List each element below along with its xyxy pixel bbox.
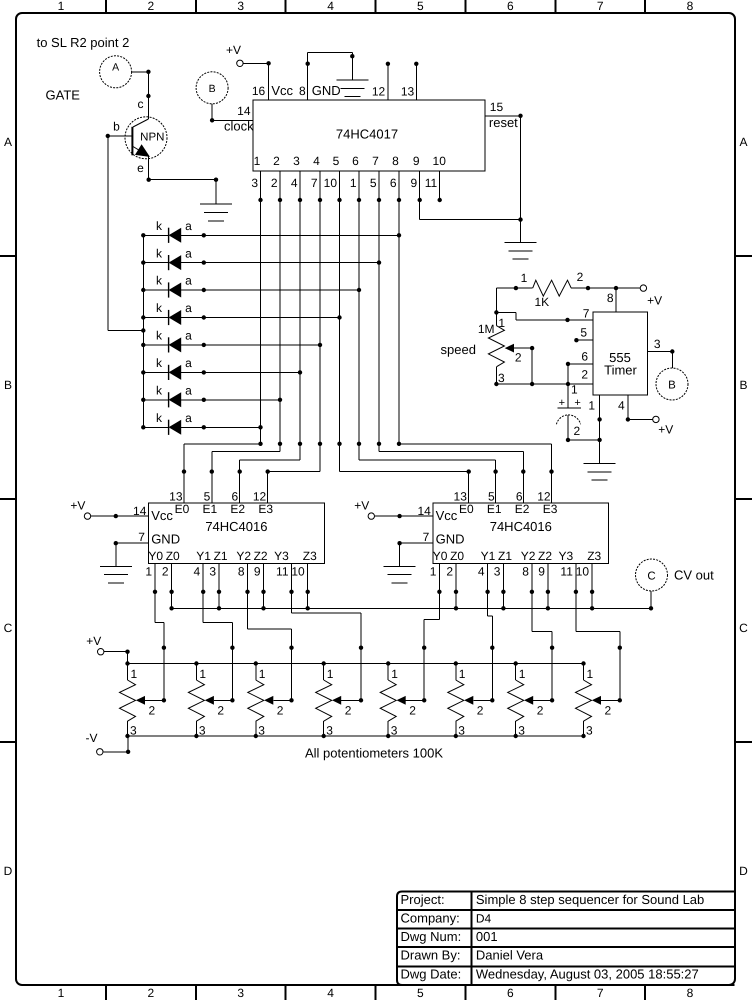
svg-text:1: 1 — [519, 667, 526, 681]
svg-text:a: a — [185, 356, 192, 370]
svg-text:Z2: Z2 — [538, 549, 552, 563]
svg-text:2: 2 — [446, 565, 453, 579]
svg-text:11: 11 — [425, 176, 438, 190]
svg-text:1: 1 — [391, 667, 398, 681]
svg-text:1: 1 — [327, 667, 334, 681]
svg-text:A: A — [739, 135, 747, 149]
svg-text:12: 12 — [372, 85, 386, 99]
svg-text:2: 2 — [605, 704, 612, 718]
svg-text:a: a — [185, 384, 192, 398]
svg-text:1: 1 — [587, 667, 594, 681]
svg-text:Y0: Y0 — [148, 549, 163, 563]
svg-text:1: 1 — [145, 565, 152, 579]
svg-text:2: 2 — [409, 704, 416, 718]
svg-text:6: 6 — [352, 154, 359, 168]
svg-text:+V: +V — [647, 294, 662, 308]
svg-text:11: 11 — [276, 565, 289, 579]
svg-text:74HC4016: 74HC4016 — [205, 519, 267, 534]
svg-text:4: 4 — [194, 565, 201, 579]
svg-text:B: B — [4, 378, 12, 392]
svg-text:+V: +V — [658, 423, 673, 437]
svg-text:Y3: Y3 — [274, 549, 289, 563]
svg-text:Project:: Project: — [401, 892, 445, 907]
svg-text:14: 14 — [133, 504, 147, 518]
svg-text:1: 1 — [571, 382, 578, 396]
svg-text:2: 2 — [149, 704, 156, 718]
svg-text:k: k — [156, 411, 163, 425]
svg-text:7: 7 — [583, 307, 590, 321]
svg-text:Z2: Z2 — [254, 549, 268, 563]
svg-text:3: 3 — [199, 724, 206, 738]
svg-text:+V: +V — [226, 43, 241, 57]
svg-text:7: 7 — [372, 154, 379, 168]
svg-text:2: 2 — [574, 424, 581, 438]
svg-text:001: 001 — [476, 929, 498, 944]
svg-text:4: 4 — [291, 176, 298, 190]
svg-text:2: 2 — [477, 704, 484, 718]
svg-text:a: a — [185, 219, 192, 233]
svg-text:D: D — [739, 864, 748, 878]
svg-text:Z0: Z0 — [166, 549, 180, 563]
svg-text:1M: 1M — [478, 322, 495, 336]
svg-text:4: 4 — [327, 0, 334, 13]
svg-text:E2: E2 — [515, 502, 530, 516]
svg-text:k: k — [156, 301, 163, 315]
svg-text:GND: GND — [312, 83, 341, 98]
svg-text:1: 1 — [131, 667, 138, 681]
svg-text:7: 7 — [597, 0, 604, 13]
svg-text:B: B — [739, 378, 747, 392]
svg-text:2: 2 — [217, 704, 224, 718]
svg-text:1: 1 — [498, 316, 505, 330]
svg-text:7: 7 — [138, 530, 145, 544]
svg-text:3: 3 — [251, 176, 258, 190]
svg-text:5: 5 — [333, 154, 340, 168]
svg-text:5: 5 — [417, 0, 424, 13]
svg-text:1: 1 — [254, 154, 261, 168]
svg-text:+V: +V — [70, 498, 85, 512]
svg-text:Vcc: Vcc — [271, 83, 293, 98]
svg-text:GND: GND — [151, 532, 180, 547]
svg-text:5: 5 — [370, 176, 377, 190]
svg-text:6: 6 — [507, 986, 514, 1000]
svg-text:to SL R2 point 2: to SL R2 point 2 — [37, 35, 130, 50]
svg-text:Daniel Vera: Daniel Vera — [476, 948, 544, 963]
svg-text:1: 1 — [588, 399, 595, 413]
svg-text:+: + — [559, 397, 565, 409]
svg-text:10: 10 — [433, 154, 447, 168]
svg-text:2: 2 — [537, 704, 544, 718]
svg-text:1: 1 — [199, 667, 206, 681]
svg-text:3: 3 — [293, 154, 300, 168]
svg-text:9: 9 — [254, 565, 261, 579]
svg-text:a: a — [185, 329, 192, 343]
svg-text:2: 2 — [515, 351, 522, 365]
svg-text:E0: E0 — [459, 502, 474, 516]
svg-text:3: 3 — [654, 337, 661, 351]
svg-text:GND: GND — [436, 532, 465, 547]
svg-text:D: D — [4, 864, 13, 878]
svg-text:1: 1 — [430, 565, 437, 579]
svg-text:c: c — [138, 97, 144, 111]
svg-text:-V: -V — [86, 731, 98, 745]
svg-text:Company:: Company: — [401, 910, 460, 925]
svg-text:10: 10 — [291, 565, 305, 579]
svg-text:4: 4 — [313, 154, 320, 168]
svg-text:D4: D4 — [476, 911, 492, 925]
svg-text:E1: E1 — [202, 502, 217, 516]
svg-text:3: 3 — [326, 724, 333, 738]
svg-text:6: 6 — [390, 176, 397, 190]
svg-text:8: 8 — [299, 84, 306, 98]
svg-text:k: k — [156, 356, 163, 370]
svg-text:Drawn By:: Drawn By: — [401, 948, 461, 963]
svg-text:2: 2 — [577, 270, 584, 284]
svg-text:+: + — [574, 397, 580, 409]
svg-text:clock: clock — [224, 119, 254, 134]
svg-text:11: 11 — [560, 565, 573, 579]
svg-text:7: 7 — [311, 176, 318, 190]
svg-text:9: 9 — [538, 565, 545, 579]
svg-text:CV out: CV out — [674, 568, 714, 583]
svg-text:k: k — [156, 274, 163, 288]
svg-text:6: 6 — [507, 0, 514, 13]
svg-text:a: a — [185, 301, 192, 315]
svg-text:+V: +V — [354, 498, 369, 512]
svg-text:3: 3 — [518, 724, 525, 738]
svg-text:Y2: Y2 — [236, 549, 251, 563]
svg-text:Y2: Y2 — [521, 549, 536, 563]
svg-text:10: 10 — [324, 176, 338, 190]
svg-text:13: 13 — [401, 85, 415, 99]
svg-text:1: 1 — [58, 0, 65, 13]
svg-text:8: 8 — [238, 565, 245, 579]
svg-text:Vcc: Vcc — [436, 508, 458, 523]
svg-text:Simple 8 step sequencer for So: Simple 8 step sequencer for Sound Lab — [476, 892, 704, 907]
svg-text:14: 14 — [417, 504, 431, 518]
svg-text:7: 7 — [423, 530, 430, 544]
svg-text:1: 1 — [259, 667, 266, 681]
svg-text:1K: 1K — [535, 295, 550, 309]
svg-text:speed: speed — [441, 342, 476, 357]
svg-text:2: 2 — [273, 154, 280, 168]
svg-text:b: b — [113, 120, 120, 134]
svg-text:a: a — [185, 246, 192, 260]
svg-text:k: k — [156, 329, 163, 343]
svg-text:74HC4017: 74HC4017 — [336, 126, 398, 141]
svg-text:8: 8 — [392, 154, 399, 168]
svg-text:5: 5 — [580, 326, 587, 340]
svg-text:3: 3 — [258, 724, 265, 738]
svg-text:C: C — [4, 621, 13, 635]
svg-text:Z1: Z1 — [214, 549, 228, 563]
svg-text:4: 4 — [327, 986, 334, 1000]
svg-text:3: 3 — [237, 0, 244, 13]
svg-text:Y3: Y3 — [559, 549, 574, 563]
svg-text:k: k — [156, 219, 163, 233]
svg-text:9: 9 — [411, 176, 418, 190]
svg-text:2: 2 — [147, 0, 154, 13]
svg-text:B: B — [209, 83, 216, 95]
svg-text:8: 8 — [687, 986, 694, 1000]
svg-text:3: 3 — [209, 565, 216, 579]
svg-text:Dwg Num:: Dwg Num: — [401, 929, 462, 944]
svg-text:8: 8 — [522, 565, 529, 579]
svg-text:3: 3 — [494, 565, 501, 579]
svg-text:Timer: Timer — [604, 363, 637, 378]
svg-text:e: e — [137, 161, 144, 175]
svg-text:1: 1 — [350, 176, 357, 190]
svg-text:1: 1 — [58, 986, 65, 1000]
svg-text:All potentiometers 100K: All potentiometers 100K — [305, 746, 443, 761]
svg-text:8: 8 — [687, 0, 694, 13]
svg-text:Z1: Z1 — [498, 549, 512, 563]
svg-text:reset: reset — [489, 115, 518, 130]
svg-text:3: 3 — [458, 724, 465, 738]
svg-text:A: A — [4, 135, 12, 149]
svg-text:4: 4 — [618, 399, 625, 413]
svg-text:E0: E0 — [175, 502, 190, 516]
svg-text:a: a — [185, 274, 192, 288]
svg-text:2: 2 — [277, 704, 284, 718]
svg-text:C: C — [647, 570, 655, 582]
svg-text:74HC4016: 74HC4016 — [490, 519, 552, 534]
svg-text:Y1: Y1 — [196, 549, 211, 563]
svg-text:2: 2 — [271, 176, 278, 190]
svg-text:E3: E3 — [543, 502, 558, 516]
svg-text:2: 2 — [581, 367, 588, 381]
svg-text:k: k — [156, 246, 163, 260]
svg-text:E1: E1 — [487, 502, 502, 516]
svg-text:Z0: Z0 — [450, 549, 464, 563]
svg-text:15: 15 — [490, 100, 504, 114]
svg-text:10: 10 — [576, 565, 590, 579]
svg-text:1: 1 — [459, 667, 466, 681]
svg-text:6: 6 — [581, 350, 588, 364]
svg-text:3: 3 — [586, 724, 593, 738]
svg-text:Wednesday, August 03, 2005 18:: Wednesday, August 03, 2005 18:55:27 — [476, 967, 699, 982]
svg-text:E2: E2 — [230, 502, 245, 516]
svg-text:3: 3 — [237, 986, 244, 1000]
svg-text:Z3: Z3 — [587, 549, 601, 563]
svg-text:7: 7 — [597, 986, 604, 1000]
svg-text:3: 3 — [498, 371, 505, 385]
svg-text:8: 8 — [607, 291, 614, 305]
svg-text:Vcc: Vcc — [151, 508, 173, 523]
svg-text:+V: +V — [86, 634, 101, 648]
svg-text:Dwg Date:: Dwg Date: — [401, 967, 462, 982]
svg-text:C: C — [739, 621, 748, 635]
svg-text:Y0: Y0 — [433, 549, 448, 563]
svg-text:9: 9 — [413, 154, 420, 168]
svg-text:2: 2 — [345, 704, 352, 718]
svg-text:a: a — [185, 411, 192, 425]
svg-text:A: A — [112, 61, 119, 73]
svg-text:3: 3 — [391, 724, 398, 738]
svg-text:E3: E3 — [258, 502, 273, 516]
svg-text:16: 16 — [252, 84, 266, 98]
svg-text:Y1: Y1 — [481, 549, 496, 563]
svg-text:2: 2 — [162, 565, 169, 579]
svg-text:NPN: NPN — [140, 132, 164, 144]
svg-text:3: 3 — [130, 724, 137, 738]
svg-text:GATE: GATE — [46, 87, 81, 102]
svg-text:5: 5 — [417, 986, 424, 1000]
svg-text:14: 14 — [237, 104, 251, 118]
svg-text:1: 1 — [521, 271, 528, 285]
svg-text:k: k — [156, 384, 163, 398]
svg-text:B: B — [668, 380, 676, 392]
svg-text:4: 4 — [478, 565, 485, 579]
svg-text:Z3: Z3 — [303, 549, 317, 563]
svg-text:2: 2 — [147, 986, 154, 1000]
